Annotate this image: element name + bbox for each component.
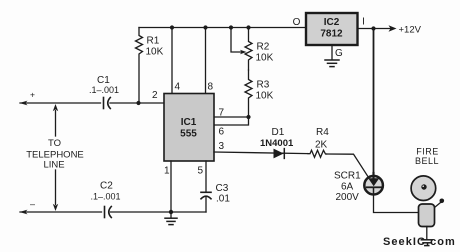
svg-text:10K: 10K [256, 53, 274, 64]
node R1 top-wire junction [136, 101, 140, 105]
svg-text:2: 2 [152, 90, 158, 101]
ground IC2 G [325, 45, 339, 67]
wire pin 4 [171, 28, 173, 94]
wire telephone + line [20, 101, 165, 106]
svg-text:G: G [335, 48, 343, 59]
svg-text:7812: 7812 [320, 29, 343, 40]
fire bell gong [411, 176, 436, 201]
node wiper rail junction [229, 25, 233, 29]
svg-text:8: 8 [208, 82, 214, 93]
node +12V junction [371, 26, 375, 30]
node pin1 ground junction [169, 210, 173, 214]
resistor R3 [245, 70, 274, 117]
svg-text:R3: R3 [257, 80, 270, 91]
svg-text:2K: 2K [315, 140, 328, 151]
wire telephone - line [20, 210, 207, 215]
svg-text:LINE: LINE [43, 160, 64, 171]
capacitor C2 [91, 181, 121, 218]
op-amp IC1 555 timer [164, 94, 214, 162]
resistor R1 [136, 28, 164, 104]
svg-text:C2: C2 [100, 181, 113, 192]
capacitor C1 [89, 75, 119, 109]
wire R2 wiper [231, 28, 247, 55]
wire pin 1 to ground [170, 161, 172, 212]
svg-text:BELL: BELL [415, 156, 439, 166]
svg-text:+12V: +12V [399, 25, 422, 36]
svg-text:R2: R2 [257, 42, 270, 53]
wire SCR cathode to bell [374, 195, 419, 213]
svg-text:R1: R1 [147, 36, 160, 47]
svg-text:6: 6 [219, 127, 225, 138]
svg-text:1: 1 [164, 166, 170, 177]
svg-text:200V: 200V [336, 192, 360, 203]
svg-text:D1: D1 [272, 127, 285, 138]
svg-text:IC1: IC1 [181, 117, 197, 128]
wire top supply rail [139, 27, 306, 29]
fire bell solenoid [419, 204, 435, 227]
ground fire bell [421, 227, 432, 246]
svg-text:6A: 6A [341, 182, 354, 193]
svg-text:IC2: IC2 [324, 17, 340, 28]
node R2 rail junction [246, 25, 250, 29]
svg-text:10K: 10K [256, 91, 274, 102]
svg-text:C3: C3 [216, 183, 229, 194]
svg-text:.1–.001: .1–.001 [91, 192, 121, 202]
wire +12V down to SCR anode [373, 29, 375, 176]
fire bell clapper [435, 199, 445, 208]
svg-text:TO: TO [48, 138, 61, 149]
svg-text:SCR1: SCR1 [334, 171, 361, 182]
svg-text:1N4001: 1N4001 [260, 138, 294, 149]
svg-text:SeekIC.com: SeekIC.com [383, 236, 456, 248]
node pin4 rail junction [170, 25, 174, 29]
svg-text:R4: R4 [316, 127, 329, 138]
wire pin 6 [214, 117, 249, 125]
svg-text:3: 3 [219, 141, 225, 152]
capacitor C3 [201, 161, 230, 212]
svg-text:–: – [30, 199, 35, 209]
diode D1 [260, 127, 294, 158]
svg-text:FIRE: FIRE [416, 147, 439, 157]
resistor R4 [308, 127, 329, 157]
node pin8 rail junction [203, 25, 207, 29]
svg-text:4: 4 [175, 82, 181, 93]
svg-text:+: + [30, 90, 35, 100]
node FIRE BELL label [415, 147, 439, 167]
node pin7 junction [246, 115, 250, 119]
op-amp IC2 7812 regulator [306, 13, 358, 45]
svg-text:7: 7 [219, 108, 225, 119]
ground pin1 [165, 212, 177, 225]
wire IC2 output to +12V [358, 25, 397, 32]
wire telephone vertical with arrows [53, 104, 58, 211]
wire pin 3 to gate [214, 152, 308, 154]
svg-text:5: 5 [198, 166, 204, 177]
wire pin 8 [205, 28, 207, 94]
svg-text:10K: 10K [146, 47, 164, 58]
wire R4 to SCR gate [327, 154, 368, 176]
svg-text:.01: .01 [216, 194, 230, 205]
transistor SCR1 [334, 171, 383, 204]
svg-text:O: O [293, 17, 301, 28]
resistor R2 (pot) [245, 28, 274, 71]
svg-text:.1–.001: .1–.001 [89, 85, 119, 95]
svg-text:555: 555 [180, 129, 197, 140]
node TO TELEPHONE LINE label [26, 138, 84, 171]
wire pin 7 [214, 116, 249, 118]
svg-text:I: I [362, 17, 365, 28]
